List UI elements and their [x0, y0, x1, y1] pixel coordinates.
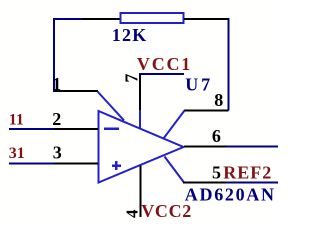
pin 5 stub black [183, 182, 227, 184]
pin 5 wire navy to edge [227, 182, 279, 184]
VCC1 net wire [139, 73, 184, 75]
svg-text:VCC1: VCC1 [137, 54, 192, 74]
minus sign [104, 127, 119, 130]
svg-text:5: 5 [212, 163, 221, 183]
svg-text:31: 31 [9, 145, 25, 162]
pin 7 inner blue segment [139, 110, 141, 128]
pin 8 diagonal into symbol [164, 111, 185, 139]
svg-text:2: 2 [52, 109, 61, 129]
pin 3 stub black [54, 163, 98, 165]
wire: resistor right lead black segment [184, 18, 228, 20]
wire: right vertical navy from top wire down to pin 8 [228, 19, 229, 111]
pin 7 stub (black vertical) [139, 74, 141, 110]
plus sign [112, 161, 121, 170]
op-amp U7 triangle body [99, 111, 184, 183]
pin 1 diagonal into symbol [98, 92, 125, 121]
resistor R 12K body [121, 13, 184, 23]
pin 2 wire navy [9, 128, 54, 130]
pin 1 stub (black) [54, 90, 98, 92]
pin 3 wire navy [9, 163, 54, 165]
svg-text:1: 1 [52, 74, 61, 94]
svg-text:AD620AN: AD620AN [185, 185, 276, 205]
svg-text:REF2: REF2 [223, 163, 272, 183]
pin 5 REF diagonal into symbol [165, 157, 185, 183]
pin 6 stub black [184, 146, 227, 148]
pin 8 stub (black) [184, 110, 229, 112]
svg-text:U7: U7 [185, 75, 213, 95]
svg-text:12K: 12K [112, 25, 148, 45]
pin 6 wire navy to edge [227, 146, 279, 148]
pin 4 stub black vertical [139, 166, 141, 218]
wire: left vertical + top-left corner navy [54, 19, 82, 92]
svg-text:8: 8 [214, 90, 223, 110]
svg-text:11: 11 [9, 112, 24, 129]
svg-text:VCC2: VCC2 [141, 201, 192, 221]
svg-text:3: 3 [53, 143, 62, 163]
svg-text:4: 4 [123, 209, 142, 218]
svg-text:7: 7 [121, 74, 141, 83]
wire: top horizontal black segment to resistor left lead [82, 18, 120, 20]
pin 2 stub black [54, 128, 98, 130]
svg-text:6: 6 [212, 126, 221, 146]
